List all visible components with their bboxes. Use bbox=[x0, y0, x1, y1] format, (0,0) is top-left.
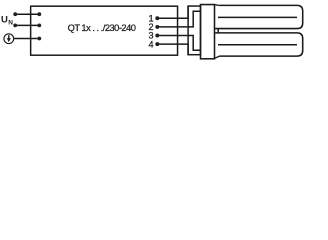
wire N (second mains wire) bbox=[15, 24, 39, 26]
svg-text:4: 4 bbox=[149, 39, 154, 49]
lamp LA1 tube 1 (upper leg) bbox=[215, 5, 303, 28]
lamp base to tube 1 chamfer bbox=[214, 4, 219, 7]
node N start dot bbox=[13, 24, 17, 28]
lamp tube 2 center line bbox=[218, 44, 297, 46]
svg-text:QT 1x . . ./230-240: QT 1x . . ./230-240 bbox=[68, 23, 136, 33]
lamp LA1 base housing bbox=[201, 5, 215, 59]
wire pin2 to lamp contact 2 bbox=[157, 11, 200, 27]
wire L (top mains wire) bbox=[15, 13, 39, 15]
pin 1 label bbox=[149, 13, 154, 49]
lamp tube legs bridge bbox=[217, 29, 219, 33]
wire earth to ballast bbox=[14, 38, 40, 40]
node N terminal dot bbox=[37, 24, 41, 28]
lamp tube 1 center line bbox=[218, 16, 297, 18]
node L terminal dot bbox=[37, 12, 41, 16]
svg-text:N: N bbox=[8, 19, 13, 26]
ground (earth symbol, circled down arrow) bbox=[4, 34, 14, 44]
lamp LA1 tube 2 (lower leg) bbox=[215, 33, 303, 56]
node pin3 dot bbox=[155, 34, 159, 38]
lamp base to tube 2 chamfer bbox=[214, 56, 219, 58]
node earth terminal dot bbox=[37, 37, 41, 41]
wire pin4 to lamp stem bottom bbox=[157, 44, 188, 55]
lamp LA1 pin holder (2G11 stem) bbox=[188, 6, 200, 55]
node pin1 dot bbox=[155, 16, 159, 20]
node UN label bbox=[1, 15, 13, 27]
wire pin1 to lamp stem top bbox=[157, 6, 188, 18]
ballast type label bbox=[68, 23, 136, 33]
node pin2 dot bbox=[155, 25, 159, 29]
ballast U1 QT 1x.../230-240 box bbox=[31, 6, 178, 55]
node pin4 dot bbox=[155, 42, 159, 46]
wire pin3 to lamp contact 3 bbox=[157, 36, 200, 51]
svg-text:U: U bbox=[1, 15, 8, 26]
node L start dot bbox=[13, 12, 17, 16]
